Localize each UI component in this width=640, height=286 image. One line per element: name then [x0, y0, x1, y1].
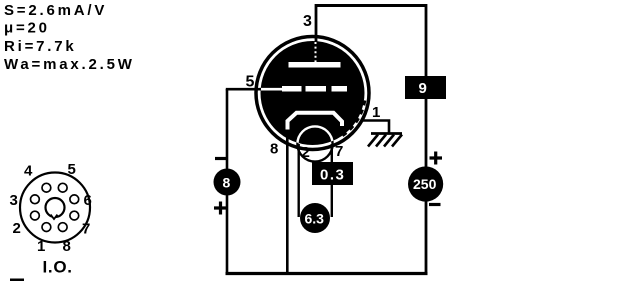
wire anode lead pin 3: [315, 4, 318, 42]
svg-text:8: 8: [270, 141, 278, 158]
wire right HT rail: [425, 4, 428, 274]
wire heater leg pin 7: [331, 144, 333, 217]
anode voltage box 9: [405, 76, 446, 99]
socket outline: [20, 173, 90, 243]
socket key notch: [50, 214, 58, 220]
socket pin 5 hole: [58, 183, 67, 192]
svg-text:7: 7: [335, 143, 343, 160]
socket pin 3 hole: [31, 195, 40, 204]
heater current box 0.3: [312, 162, 353, 185]
minus sign left: [215, 157, 227, 160]
socket key circle: [46, 198, 65, 217]
svg-text:5: 5: [68, 161, 76, 178]
svg-text:I.O.: I.O.: [43, 258, 73, 277]
cathode: [288, 113, 343, 130]
internal shield dashed lead to pin 1: [340, 101, 365, 138]
svg-text:2: 2: [13, 220, 21, 237]
svg-text:6.3: 6.3: [305, 211, 325, 227]
grid dash 3: [332, 86, 348, 92]
grid dash 1: [282, 86, 302, 92]
svg-text:7: 7: [82, 221, 90, 238]
wire heater leg pin 2: [298, 144, 300, 217]
HT battery circle 250: [408, 166, 443, 201]
svg-text:Wa=max.2.5W: Wa=max.2.5W: [4, 56, 135, 73]
grid bias battery circle 8: [214, 169, 241, 196]
minus sign right: [429, 203, 441, 206]
socket pin 2 hole: [31, 211, 40, 220]
socket pin 4 hole: [42, 183, 51, 192]
svg-text:250: 250: [413, 176, 437, 192]
heater loop (black part outside bulb): [297, 126, 332, 161]
svg-text:8: 8: [63, 238, 71, 255]
anode plate bar: [289, 62, 341, 68]
svg-text:5: 5: [246, 74, 255, 91]
grid dash 2: [306, 86, 327, 92]
heater voltage circle 6.3: [300, 203, 330, 233]
svg-text:8: 8: [223, 175, 231, 191]
svg-text:1: 1: [37, 238, 45, 255]
socket pin 7 hole: [70, 211, 79, 220]
svg-text:3: 3: [303, 13, 312, 30]
ground: [368, 134, 402, 147]
socket pin 1 hole: [42, 223, 51, 232]
svg-text:0.3: 0.3: [320, 167, 345, 184]
svg-text:9: 9: [419, 80, 427, 97]
svg-text:S=2.6mA/V: S=2.6mA/V: [4, 2, 107, 19]
grid lead inside tube (white): [261, 88, 283, 91]
svg-text:μ=20: μ=20: [4, 20, 50, 37]
tube V1 envelope outer circle: [256, 37, 369, 150]
wire bottom rail: [226, 272, 428, 275]
tube V1 inner disc: [261, 41, 365, 145]
wire grid pin 5: [226, 88, 264, 91]
socket pin 8 hole: [58, 223, 67, 232]
scan smudge bottom left: [10, 279, 24, 282]
svg-text:2: 2: [302, 144, 310, 161]
svg-text:4: 4: [24, 163, 33, 180]
wire pin 1 to ground: [363, 121, 389, 134]
svg-text:6: 6: [84, 192, 92, 209]
svg-text:Ri=7.7k: Ri=7.7k: [4, 38, 77, 55]
svg-text:1: 1: [372, 104, 380, 121]
plus sign left: [214, 202, 227, 215]
wire top (anode to HT rail): [315, 4, 426, 7]
socket base diagram: [10, 161, 92, 277]
plus sign right: [430, 152, 443, 165]
socket pin 6 hole: [70, 195, 79, 204]
svg-text:3: 3: [10, 192, 18, 209]
heater loop (white part inside bulb): [297, 126, 332, 161]
wire left rail: [226, 89, 229, 274]
anode lead dotted (inside tube): [315, 42, 317, 62]
wire cathode lead pin 8: [286, 128, 289, 273]
